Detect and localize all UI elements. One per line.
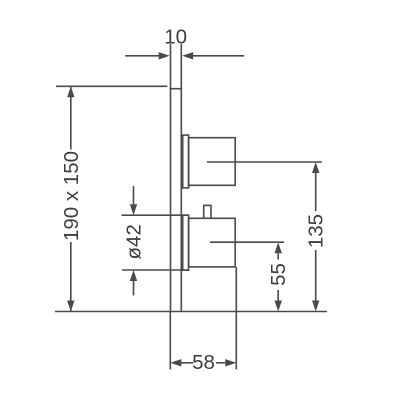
svg-text:10: 10 xyxy=(164,26,187,49)
svg-text:ø42: ø42 xyxy=(123,224,146,259)
svg-text:190 x 150: 190 x 150 xyxy=(60,151,83,241)
svg-text:58: 58 xyxy=(192,351,215,374)
svg-text:55: 55 xyxy=(267,263,290,286)
svg-text:135: 135 xyxy=(305,214,328,248)
